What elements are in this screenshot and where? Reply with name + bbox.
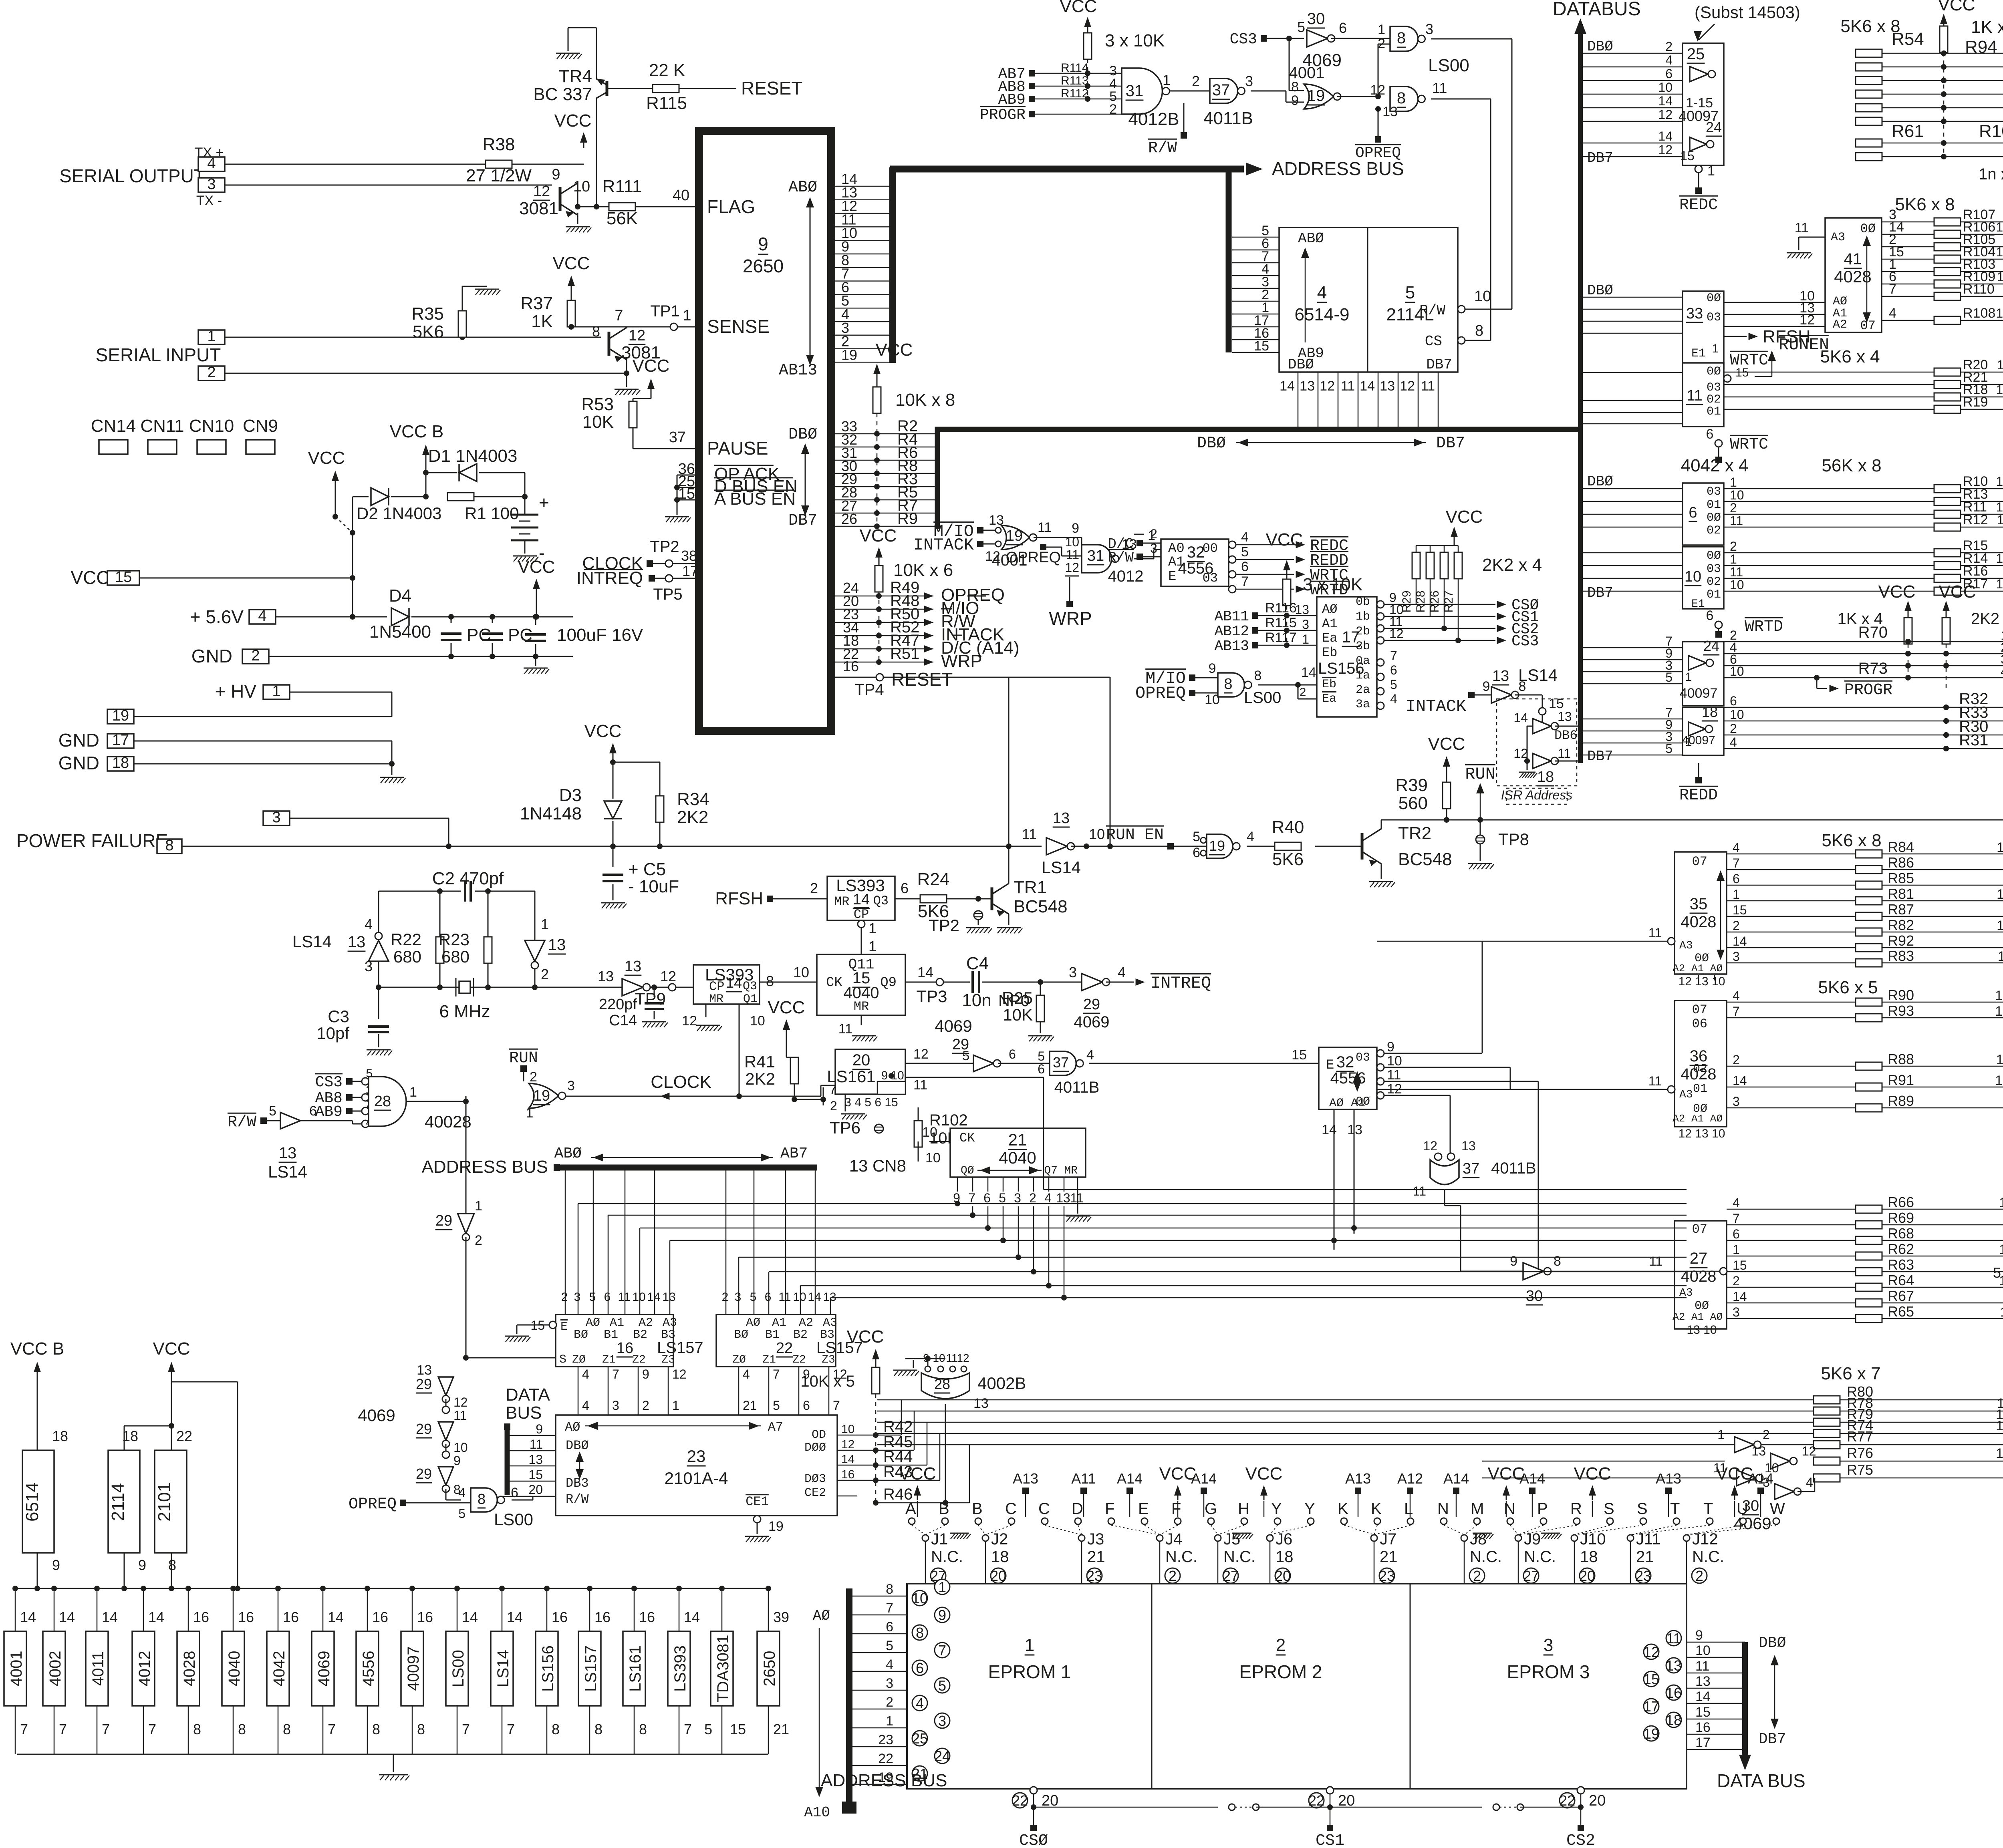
svg-text:15: 15 <box>1695 1705 1711 1720</box>
svg-text:3 4 5 6 15: 3 4 5 6 15 <box>844 1096 898 1109</box>
resistor R23 680 <box>484 937 492 963</box>
svg-text:10: 10 <box>1997 840 2003 855</box>
svg-text:2: 2 <box>1300 686 1306 699</box>
svg-text:9: 9 <box>642 1367 649 1381</box>
svg-text:14: 14 <box>507 1609 523 1625</box>
svg-text:REDD: REDD <box>1679 787 1718 805</box>
block 33 4042 <box>1683 291 1724 369</box>
wire POWER FAILURE long <box>182 846 1042 847</box>
EPROM3 circled pins and data pins <box>1666 1631 1681 1646</box>
svg-text:J3: J3 <box>1087 1530 1104 1548</box>
svg-text:VCC: VCC <box>518 557 555 577</box>
svg-text:2: 2 <box>541 966 549 982</box>
svg-text:0Ø: 0Ø <box>1707 549 1721 563</box>
svg-text:S: S <box>559 1353 566 1367</box>
svg-text:N: N <box>1504 1500 1515 1518</box>
svg-text:6: 6 <box>1706 608 1714 623</box>
svg-text:R27: R27 <box>1442 590 1455 612</box>
svg-text:DATA BUS: DATA BUS <box>1717 1770 1806 1791</box>
svg-text:A7: A7 <box>768 1420 783 1435</box>
outputs CS0-CS3 <box>1377 601 1384 608</box>
overline D/C pullup list <box>952 635 962 636</box>
svg-text:7: 7 <box>1733 1211 1740 1226</box>
svg-text:4028: 4028 <box>1834 267 1871 286</box>
svg-text:R63: R63 <box>1888 1256 1914 1273</box>
svg-text:TP6: TP6 <box>830 1118 860 1137</box>
svg-text:RUN: RUN <box>1465 765 1495 784</box>
svg-text:BUS: BUS <box>506 1403 542 1423</box>
wire VCC to component rail <box>171 1381 238 1383</box>
svg-text:2: 2 <box>1192 73 1200 89</box>
svg-text:10: 10 <box>1730 664 1744 678</box>
svg-text:5: 5 <box>704 1721 712 1737</box>
pullup resistor pack 10K x 8 (R2-R9) <box>877 368 878 380</box>
svg-text:C4: C4 <box>966 954 989 973</box>
svg-text:14: 14 <box>1733 934 1747 948</box>
svg-text:TDA3081: TDA3081 <box>714 1635 732 1703</box>
svg-text:3 x 10K: 3 x 10K <box>1303 575 1362 594</box>
LS156 lower pins <box>1377 659 1384 666</box>
svg-text:8: 8 <box>1224 676 1232 692</box>
IC power box 2650 <box>768 1588 769 1631</box>
svg-text:R108: R108 <box>1963 306 1995 321</box>
svg-text:5: 5 <box>1241 544 1249 560</box>
svg-text:5K6 x 5: 5K6 x 5 <box>1818 978 1878 997</box>
databus ladder to 18 40097 <box>1580 719 1683 720</box>
svg-text:13: 13 <box>1751 1444 1766 1458</box>
svg-text:DB7: DB7 <box>1587 585 1613 601</box>
svg-text:SERIAL OUTPUT: SERIAL OUTPUT <box>59 165 205 186</box>
decoder 35 4028 <box>1675 852 1727 974</box>
svg-text:16: 16 <box>1695 1720 1711 1735</box>
svg-text:4: 4 <box>1118 964 1126 980</box>
svg-text:N.C.: N.C. <box>1165 1548 1197 1566</box>
svg-text:E1: E1 <box>1691 598 1705 610</box>
svg-text:5: 5 <box>589 1290 596 1304</box>
jumper row J1-J12 <box>922 1535 929 1541</box>
svg-text:10pf: 10pf <box>316 1024 349 1043</box>
svg-text:VCC: VCC <box>633 356 670 376</box>
block 24 40097 <box>1683 642 1724 706</box>
svg-text:TP2: TP2 <box>650 538 679 556</box>
svg-text:DBØ: DBØ <box>1197 435 1226 453</box>
ground TR1 <box>1008 914 1010 925</box>
svg-text:19: 19 <box>1006 527 1023 544</box>
svg-text:4011B: 4011B <box>1491 1160 1536 1177</box>
resistor R35 5K6 <box>458 311 466 337</box>
svg-text:2: 2 <box>1730 539 1737 554</box>
svg-text:VCC: VCC <box>1245 1464 1283 1484</box>
dotted jumper at VCC select <box>335 517 353 533</box>
svg-text:2650: 2650 <box>761 1651 778 1687</box>
svg-text:OPREQ: OPREQ <box>1006 549 1061 566</box>
svg-text:E: E <box>1138 1500 1149 1518</box>
svg-text:40: 40 <box>673 187 689 204</box>
svg-text:27 1/2W: 27 1/2W <box>466 166 532 185</box>
svg-text:4: 4 <box>1665 53 1673 67</box>
svg-text:OPREQ: OPREQ <box>1355 145 1401 162</box>
svg-text:16: 16 <box>617 1340 633 1357</box>
svg-text:560: 560 <box>1398 793 1428 813</box>
svg-text:(Subst 14503): (Subst 14503) <box>1695 3 1800 22</box>
svg-text:R35: R35 <box>411 304 444 324</box>
svg-text:20: 20 <box>1275 1568 1291 1584</box>
svg-text:8: 8 <box>193 1721 201 1737</box>
svg-text:A1: A1 <box>610 1316 624 1330</box>
svg-text:10K: 10K <box>1003 1005 1033 1024</box>
svg-text:01: 01 <box>1707 405 1721 419</box>
ground at C3 <box>367 1049 391 1051</box>
svg-text:R70: R70 <box>1858 624 1888 641</box>
svg-text:14: 14 <box>20 1609 36 1625</box>
svg-text:R117: R117 <box>1265 630 1297 645</box>
svg-text:DB7: DB7 <box>1426 356 1452 373</box>
svg-text:0Ø: 0Ø <box>1707 511 1721 525</box>
svg-text:11: 11 <box>1413 1184 1426 1198</box>
svg-text:R115: R115 <box>1265 615 1297 630</box>
svg-text:14: 14 <box>808 1290 821 1304</box>
svg-text:Z1: Z1 <box>762 1354 776 1366</box>
svg-text:24: 24 <box>934 1748 950 1764</box>
svg-text:32: 32 <box>1187 544 1205 561</box>
svg-text:2: 2 <box>1733 1053 1740 1067</box>
svg-text:QØ: QØ <box>961 1165 974 1177</box>
svg-text:VCC: VCC <box>899 1464 936 1484</box>
svg-text:R12: R12 <box>1963 512 1988 527</box>
capacitor PC 2 <box>492 617 493 623</box>
svg-text:WRP: WRP <box>941 651 982 671</box>
svg-text:14: 14 <box>1658 129 1673 143</box>
svg-text:24: 24 <box>1706 119 1722 135</box>
svg-text:27: 27 <box>1523 1568 1539 1584</box>
CPU RESET pin 16 <box>831 677 876 678</box>
svg-text:03: 03 <box>1203 571 1218 586</box>
mid address bus AB0-AB7 <box>560 1165 817 1171</box>
svg-text:CN14: CN14 <box>91 416 136 436</box>
svg-text:2: 2 <box>642 1398 649 1413</box>
svg-text:29: 29 <box>1083 996 1100 1013</box>
svg-text:A11: A11 <box>1071 1470 1096 1487</box>
svg-text:VCC: VCC <box>1574 1464 1611 1484</box>
RAM 23 2101A-4 <box>556 1415 837 1516</box>
ADDRESS BUS thick top <box>890 166 1244 173</box>
svg-text:N.C.: N.C. <box>1470 1548 1502 1566</box>
wire 4011B out <box>1251 91 1286 92</box>
wire reset branch right <box>1009 677 1110 678</box>
svg-text:11: 11 <box>778 1290 791 1304</box>
svg-text:4042 x 4: 4042 x 4 <box>1681 456 1749 475</box>
svg-text:6: 6 <box>765 1290 772 1304</box>
svg-text:2b: 2b <box>1356 625 1370 638</box>
svg-text:15: 15 <box>1643 1671 1659 1687</box>
svg-text:CS3: CS3 <box>1511 633 1539 650</box>
svg-text:3: 3 <box>272 809 280 826</box>
svg-text:RFSH: RFSH <box>715 889 763 908</box>
svg-text:37: 37 <box>1212 81 1230 99</box>
svg-text:13: 13 <box>1558 709 1572 724</box>
svg-text:10K x 6: 10K x 6 <box>893 560 953 580</box>
resistor R25 10K <box>1040 982 1041 995</box>
svg-text:BØ: BØ <box>734 1328 748 1342</box>
decoder 27 4028 <box>1675 1221 1727 1329</box>
svg-text:7: 7 <box>968 1191 975 1205</box>
ground above TR4 <box>568 27 596 28</box>
svg-text:15: 15 <box>528 1468 543 1482</box>
VCC arrow left <box>335 475 336 487</box>
svg-text:12: 12 <box>1658 107 1673 122</box>
svg-text:12: 12 <box>660 968 676 984</box>
svg-text:D: D <box>1072 1500 1083 1518</box>
svg-text:8: 8 <box>1519 679 1526 694</box>
svg-text:7: 7 <box>1241 574 1249 589</box>
svg-text:ABØ: ABØ <box>554 1145 582 1162</box>
svg-text:LS14: LS14 <box>268 1162 307 1181</box>
svg-text:13: 13 <box>528 1452 543 1467</box>
wire 4011B to 4556 E <box>1089 1063 1319 1064</box>
svg-text:2: 2 <box>1109 102 1117 117</box>
svg-text:9: 9 <box>1072 521 1079 536</box>
svg-text:4: 4 <box>1889 306 1896 321</box>
svg-text:14: 14 <box>917 964 933 980</box>
svg-text:6: 6 <box>1689 504 1697 521</box>
svg-text:3a: 3a <box>1356 698 1370 711</box>
svg-text:11: 11 <box>913 1077 927 1093</box>
EPROM left address pins <box>852 1596 907 1597</box>
LS161 right pins <box>905 1063 953 1064</box>
svg-text:1: 1 <box>207 328 216 345</box>
svg-text:Eb: Eb <box>1322 645 1337 660</box>
svg-text:2114: 2114 <box>108 1483 128 1521</box>
decoder 41 4028 <box>1825 218 1882 332</box>
svg-text:7: 7 <box>886 1600 893 1616</box>
R/W pad below 4011B <box>1183 103 1185 132</box>
pullups 1K x 4 / 2K2 x 4 at switch <box>1908 606 1909 617</box>
svg-text:2: 2 <box>1733 918 1740 933</box>
svg-text:CS2: CS2 <box>1566 1832 1595 1848</box>
svg-text:13: 13 <box>1347 1122 1362 1137</box>
svg-text:WRTC: WRTC <box>1730 436 1768 454</box>
EPROM1 circled pins <box>935 1579 950 1594</box>
svg-text:AB9: AB9 <box>315 1103 343 1121</box>
svg-text:01: 01 <box>1707 588 1721 602</box>
svg-text:6: 6 <box>1193 845 1200 860</box>
IC power box 40097 <box>412 1588 413 1631</box>
wire D1 to battery node <box>524 473 526 497</box>
data bus thick horizontal DB0-DB7 <box>935 427 1580 432</box>
decoder 36 4028 <box>1675 1000 1727 1127</box>
svg-text:6: 6 <box>1390 663 1397 677</box>
svg-text:8: 8 <box>417 1721 425 1737</box>
svg-text:33: 33 <box>1686 305 1703 322</box>
ground stub above R35 <box>462 286 463 311</box>
svg-text:Y: Y <box>1304 1500 1315 1518</box>
svg-text:N.C.: N.C. <box>1223 1548 1255 1566</box>
wire R115 to RESET <box>679 88 736 89</box>
svg-text:10: 10 <box>1695 1643 1711 1658</box>
svg-text:R81: R81 <box>1888 886 1914 902</box>
svg-text:VCC: VCC <box>876 340 913 360</box>
svg-text:6: 6 <box>983 1191 991 1205</box>
svg-text:11: 11 <box>1687 387 1702 404</box>
svg-text:10: 10 <box>1089 826 1105 842</box>
svg-text:13: 13 <box>1056 1191 1070 1205</box>
svg-text:A1: A1 <box>772 1316 786 1330</box>
svg-text:CS: CS <box>1425 333 1442 350</box>
svg-text:20: 20 <box>1579 1568 1595 1584</box>
svg-text:13: 13 <box>1997 918 2003 933</box>
svg-text:03: 03 <box>1356 1051 1370 1065</box>
svg-text:3: 3 <box>1014 1191 1021 1205</box>
svg-text:R26: R26 <box>1428 590 1441 612</box>
wire 4012B out to 4011B <box>1170 91 1210 92</box>
svg-text:A13: A13 <box>1656 1470 1681 1487</box>
svg-text:5 x 1N4003: 5 x 1N4003 <box>1993 1264 2003 1281</box>
svg-text:2650: 2650 <box>743 256 784 276</box>
svg-text:VCC: VCC <box>1878 582 1916 602</box>
svg-text:A: A <box>905 1500 916 1518</box>
svg-text:4: 4 <box>258 608 266 624</box>
svg-text:2: 2 <box>810 880 818 896</box>
RAM 6514 (battery backed) <box>22 1450 54 1553</box>
svg-text:TP1: TP1 <box>650 302 679 320</box>
ground at GND pins <box>391 764 393 775</box>
svg-text:9: 9 <box>552 166 560 183</box>
svg-text:4002B: 4002B <box>977 1374 1026 1393</box>
EPROM block 1-3 <box>907 1584 1687 1789</box>
svg-text:30: 30 <box>1307 10 1325 28</box>
svg-text:9: 9 <box>138 1557 146 1573</box>
svg-text:R73: R73 <box>1858 660 1888 677</box>
svg-text:9: 9 <box>1510 1254 1517 1269</box>
svg-text:16: 16 <box>639 1609 655 1625</box>
svg-text:DBØ: DBØ <box>566 1438 589 1453</box>
svg-text:R62: R62 <box>1888 1241 1914 1257</box>
svg-text:DB7: DB7 <box>788 512 817 530</box>
wire TR4 collector down to FLAG node <box>596 98 597 207</box>
svg-text:R85: R85 <box>1888 870 1914 886</box>
svg-text:1: 1 <box>869 920 877 936</box>
svg-text:10: 10 <box>925 1150 941 1166</box>
svg-text:C2 470pf: C2 470pf <box>432 869 504 888</box>
block 11 4042 <box>1683 363 1724 427</box>
svg-text:FLAG: FLAG <box>707 196 755 217</box>
svg-text:56K: 56K <box>607 209 638 228</box>
wires 33 to 41 <box>1724 302 1825 303</box>
svg-text:13: 13 <box>279 1144 297 1162</box>
svg-text:40097: 40097 <box>405 1646 422 1691</box>
svg-text:A3: A3 <box>1679 1089 1693 1101</box>
svg-text:4028: 4028 <box>181 1651 198 1687</box>
svg-text:DB7: DB7 <box>1759 1731 1786 1748</box>
svg-text:B1: B1 <box>604 1328 618 1342</box>
svg-text:H: H <box>1238 1500 1249 1518</box>
component supply rail bottom <box>17 1754 768 1755</box>
svg-text:12: 12 <box>1423 1139 1437 1153</box>
svg-text:GND: GND <box>58 753 99 773</box>
svg-text:10: 10 <box>1474 288 1491 305</box>
svg-text:4011B: 4011B <box>1203 109 1253 128</box>
svg-text:8: 8 <box>168 1557 176 1573</box>
svg-text:DB7: DB7 <box>1587 150 1613 166</box>
svg-text:4028: 4028 <box>1681 1268 1717 1285</box>
svg-text:17: 17 <box>112 732 129 749</box>
DATA BUS vertical at EPROM <box>1742 1642 1748 1760</box>
svg-text:Q1: Q1 <box>743 992 758 1006</box>
svg-text:40097: 40097 <box>1680 686 1718 701</box>
wire FLAG node to R111 <box>578 206 609 207</box>
svg-text:+ C5: + C5 <box>628 860 666 879</box>
svg-text:LS156: LS156 <box>539 1645 557 1692</box>
svg-text:9: 9 <box>1209 661 1216 676</box>
svg-text:8: 8 <box>1254 668 1262 683</box>
svg-text:21: 21 <box>1008 1130 1027 1149</box>
decoder 32 4556 (top) <box>1161 539 1229 586</box>
svg-text:F: F <box>1171 1500 1181 1518</box>
svg-text:B: B <box>939 1500 949 1518</box>
svg-text:13: 13 <box>1492 668 1509 684</box>
svg-text:4040: 4040 <box>999 1148 1036 1167</box>
svg-text:R77: R77 <box>1847 1428 1873 1445</box>
test point TP8 <box>1480 820 1481 835</box>
svg-text:LS14: LS14 <box>1042 858 1081 877</box>
jumper source contacts <box>909 1518 915 1524</box>
svg-text:A3: A3 <box>823 1316 837 1330</box>
svg-text:TR2: TR2 <box>1398 823 1431 843</box>
LS161 top pins 9 10 <box>877 1081 905 1094</box>
svg-text:19: 19 <box>841 346 857 363</box>
resistor R1 100 <box>447 493 474 501</box>
ground at component rail <box>393 1754 394 1772</box>
resistor R102 10K <box>914 1121 922 1147</box>
svg-text:R76: R76 <box>1847 1445 1873 1461</box>
svg-text:LS157: LS157 <box>582 1645 600 1692</box>
svg-text:13: 13 <box>1996 500 2003 514</box>
svg-text:35: 35 <box>1690 895 1708 913</box>
svg-text:A0: A0 <box>1168 541 1185 556</box>
svg-text:4: 4 <box>886 1657 893 1672</box>
svg-text:B2: B2 <box>793 1328 808 1342</box>
svg-text:R115: R115 <box>646 93 687 113</box>
svg-text:21: 21 <box>773 1721 789 1737</box>
svg-text:4042: 4042 <box>270 1651 288 1687</box>
svg-text:12 13 10: 12 13 10 <box>1679 975 1725 988</box>
svg-text:07: 07 <box>1692 1003 1707 1017</box>
RAM data pins down to bus <box>1298 372 1299 429</box>
REDD pad below ISR <box>1698 763 1699 777</box>
svg-text:AB11: AB11 <box>1215 608 1249 625</box>
svg-text:R67: R67 <box>1888 1288 1914 1304</box>
svg-text:INTREQ: INTREQ <box>576 568 643 588</box>
connector pin 19 <box>107 709 134 724</box>
wire pin2 <box>225 373 627 374</box>
svg-text:4: 4 <box>1390 692 1397 706</box>
pullups 2K2 x 4 at CS lines <box>1454 531 1455 543</box>
svg-text:24: 24 <box>1703 638 1719 654</box>
svg-text:BC548: BC548 <box>1014 897 1068 916</box>
test point TP2 <box>974 911 983 920</box>
svg-text:11: 11 <box>1730 513 1743 528</box>
svg-text:4069: 4069 <box>358 1406 395 1425</box>
svg-text:4012: 4012 <box>1108 568 1144 585</box>
svg-text:C: C <box>1005 1500 1017 1518</box>
svg-text:CP: CP <box>854 907 869 922</box>
svg-text:Q3: Q3 <box>743 980 757 993</box>
svg-text:10: 10 <box>750 1013 765 1029</box>
svg-text:11: 11 <box>530 1437 543 1451</box>
svg-text:R88: R88 <box>1888 1051 1914 1067</box>
svg-text:R90: R90 <box>1888 987 1914 1003</box>
svg-text:11: 11 <box>1558 746 1571 761</box>
